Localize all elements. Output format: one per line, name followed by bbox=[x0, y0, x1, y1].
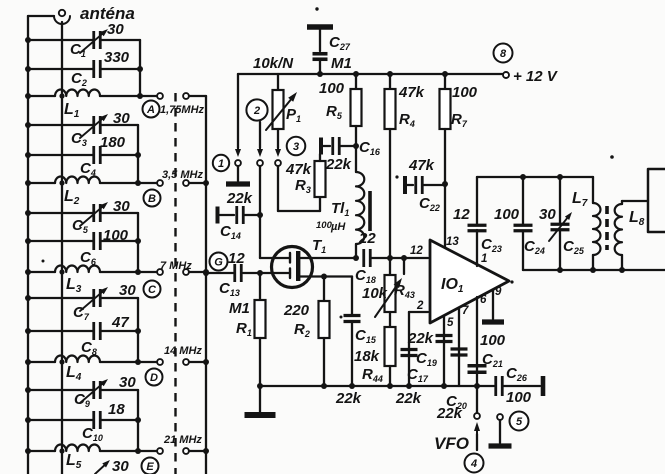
svg-text:13: 13 bbox=[446, 236, 459, 248]
band bus rail bbox=[205, 96, 207, 474]
trimmer capacitor C1 bbox=[92, 31, 95, 49]
switch contact pair band C bbox=[157, 269, 163, 275]
inductor L3 bbox=[55, 266, 100, 272]
switch contact column 1 from rail bbox=[237, 74, 239, 148]
svg-text:22k: 22k bbox=[335, 390, 362, 407]
ground symbol bbox=[259, 386, 261, 412]
capacitor C23 12 bbox=[476, 177, 478, 224]
svg-text:100: 100 bbox=[480, 332, 506, 349]
trimmer capacitor C5 bbox=[92, 204, 95, 222]
antenna rail bbox=[61, 22, 63, 474]
node B bbox=[144, 190, 161, 207]
svg-text:A: A bbox=[146, 104, 155, 116]
capacitor C8 bbox=[92, 322, 95, 340]
wire contact2 to gate1 bbox=[259, 166, 261, 258]
node G bbox=[210, 253, 228, 271]
ground under contact 1 bbox=[237, 166, 239, 181]
capacitor C18 22 bbox=[362, 249, 365, 267]
svg-text:100: 100 bbox=[452, 84, 478, 101]
svg-text:µH: µH bbox=[330, 221, 346, 233]
tank bottom rail bbox=[523, 269, 665, 271]
svg-text:47k: 47k bbox=[408, 157, 435, 174]
wire row C1 bbox=[28, 39, 93, 41]
switch contact pair band B bbox=[157, 180, 163, 186]
svg-text:10k: 10k bbox=[362, 285, 388, 302]
node E bbox=[142, 458, 159, 474]
capacitor C27 M1 bbox=[313, 52, 328, 56]
junction R43 wiper node bbox=[401, 255, 407, 261]
capacitor C10 bbox=[92, 411, 95, 429]
junction dots left rail bbox=[25, 295, 31, 301]
right connector section 5 bbox=[137, 390, 139, 451]
svg-text:22k: 22k bbox=[325, 156, 352, 173]
svg-text:30: 30 bbox=[113, 198, 130, 215]
svg-text:100: 100 bbox=[103, 227, 129, 244]
node 2 bbox=[246, 99, 267, 120]
svg-text:M1: M1 bbox=[331, 55, 352, 72]
switch contact pair band D bbox=[157, 359, 163, 365]
junction dots left rail bbox=[25, 210, 31, 216]
svg-text:2: 2 bbox=[253, 105, 260, 117]
svg-text:12: 12 bbox=[453, 206, 470, 223]
transistor T1 dual-gate FET bbox=[272, 247, 313, 288]
junction gate bbox=[257, 270, 263, 276]
wire row L4 bbox=[28, 361, 55, 363]
svg-text:E: E bbox=[146, 461, 154, 473]
node 3 bbox=[287, 137, 306, 156]
svg-text:30: 30 bbox=[113, 110, 130, 127]
right connector section 4 bbox=[137, 298, 139, 362]
svg-text:47k: 47k bbox=[285, 161, 312, 178]
pin 7 wire bbox=[458, 308, 460, 386]
svg-text:100: 100 bbox=[506, 389, 532, 406]
output box bbox=[648, 169, 665, 232]
svg-text:7: 7 bbox=[462, 305, 469, 317]
left rail bbox=[27, 16, 29, 474]
speck bbox=[315, 7, 318, 10]
svg-text:VFO: VFO bbox=[434, 434, 469, 453]
capacitor C20 bbox=[451, 347, 468, 350]
node C bbox=[144, 281, 161, 298]
svg-text:12: 12 bbox=[410, 245, 423, 257]
junction dots left rail bbox=[25, 37, 31, 43]
inductor L1 bbox=[55, 90, 100, 96]
ground above C27 bbox=[307, 24, 333, 30]
node A bbox=[143, 101, 160, 118]
wire row C7 bbox=[28, 297, 93, 299]
trimmer fragment bottom bbox=[95, 466, 104, 474]
drain wire bbox=[300, 257, 356, 259]
inductor L4 bbox=[55, 356, 100, 362]
resistor R44 18k bbox=[389, 312, 391, 327]
svg-text:8: 8 bbox=[500, 48, 507, 60]
inductor L5 bbox=[55, 445, 100, 451]
resistor R1 M1 bbox=[259, 273, 261, 300]
pin 6 wire bbox=[476, 297, 478, 386]
resistor R4 47k bbox=[389, 74, 391, 89]
svg-text:22k: 22k bbox=[436, 405, 463, 422]
svg-text:330: 330 bbox=[104, 49, 130, 66]
wire antenna to left rail bbox=[28, 15, 54, 17]
trimmer capacitor C3 bbox=[92, 116, 95, 134]
wire row L3 bbox=[28, 271, 55, 273]
junction dots left rail bbox=[25, 387, 31, 393]
wire row C5 bbox=[28, 212, 93, 214]
wire contact3 to R3 bbox=[277, 166, 279, 211]
svg-text:30: 30 bbox=[119, 282, 136, 299]
capacitor C4 bbox=[92, 146, 95, 164]
pin 5 wire bbox=[443, 316, 445, 386]
wire row C3 bbox=[28, 124, 93, 126]
+12V supply rail bbox=[238, 73, 503, 75]
svg-text:100: 100 bbox=[494, 206, 520, 223]
inductor Tl1 100uH bbox=[356, 172, 364, 244]
capacitor C16 bbox=[319, 138, 323, 155]
inductor L2 bbox=[55, 177, 100, 183]
wire row C9 bbox=[28, 389, 93, 391]
capacitor C17 bbox=[401, 348, 418, 351]
svg-text:18: 18 bbox=[108, 401, 125, 418]
svg-text:6: 6 bbox=[480, 294, 487, 306]
svg-text:1: 1 bbox=[218, 158, 224, 170]
wire row C8 bbox=[28, 330, 93, 332]
right connector section 1 bbox=[139, 40, 141, 96]
svg-text:3: 3 bbox=[293, 141, 299, 153]
pin 2 wire bbox=[409, 311, 428, 313]
svg-text:220: 220 bbox=[283, 302, 310, 319]
contact 5 ground bbox=[497, 414, 503, 420]
wire row L1 bbox=[28, 95, 55, 97]
switch contact pair band A bbox=[157, 93, 163, 99]
svg-text:5: 5 bbox=[516, 416, 523, 428]
svg-text:D: D bbox=[150, 372, 158, 384]
node 4 bbox=[465, 454, 484, 473]
capacitor C15 bbox=[351, 277, 353, 315]
svg-text:30: 30 bbox=[107, 21, 124, 38]
resistor R7 100 bbox=[444, 74, 446, 89]
svg-text:3,5 MHz: 3,5 MHz bbox=[162, 169, 203, 181]
switch contact column 2 bbox=[259, 122, 261, 148]
wire row C4 bbox=[28, 154, 93, 156]
transformer core bbox=[605, 206, 609, 250]
node 5 bbox=[510, 412, 529, 431]
right connector section 2 bbox=[137, 125, 139, 183]
op-amp IO1 bbox=[430, 240, 509, 323]
source wire bbox=[300, 275, 324, 277]
switch contact column 3 from P1 bbox=[277, 129, 279, 148]
svg-text:5: 5 bbox=[447, 317, 454, 329]
svg-text:10k/N: 10k/N bbox=[253, 55, 294, 72]
svg-text:22k: 22k bbox=[407, 330, 434, 347]
resistor R3 47k bbox=[319, 197, 321, 211]
svg-text:G: G bbox=[214, 256, 223, 268]
svg-text:1,75MHz: 1,75MHz bbox=[160, 104, 205, 116]
svg-text:30: 30 bbox=[112, 458, 129, 474]
svg-text:22k: 22k bbox=[226, 190, 253, 207]
svg-text:100: 100 bbox=[319, 80, 345, 97]
resistor R2 220 bbox=[323, 277, 325, 302]
switch contact pair band E bbox=[157, 448, 163, 454]
junction dots left rail bbox=[25, 122, 31, 128]
svg-text:M1: M1 bbox=[229, 300, 250, 317]
switch wafer dashed line bbox=[174, 93, 176, 474]
svg-text:B: B bbox=[148, 193, 156, 205]
svg-text:12: 12 bbox=[228, 250, 245, 267]
capacitor C24 100 bbox=[522, 177, 524, 224]
svg-text:+ 12 V: + 12 V bbox=[513, 68, 559, 85]
trimmer capacitor C9 bbox=[92, 381, 95, 399]
capacitor C13 12 bbox=[203, 270, 209, 276]
potentiometer P1 bbox=[277, 74, 279, 90]
inductor L7 bbox=[592, 177, 594, 203]
resistor R5 100 bbox=[355, 74, 357, 89]
svg-text:21 MHz: 21 MHz bbox=[163, 434, 202, 446]
svg-text:47k: 47k bbox=[398, 84, 425, 101]
wire row C6 bbox=[28, 240, 93, 242]
svg-text:47: 47 bbox=[111, 314, 129, 331]
inductor L8 bbox=[615, 204, 622, 255]
pin 1 wire bbox=[476, 230, 478, 266]
tank top rail bbox=[477, 176, 593, 178]
capacitor C2 bbox=[92, 60, 95, 78]
svg-text:30: 30 bbox=[539, 206, 556, 223]
node D bbox=[146, 369, 163, 386]
capacitor C6 bbox=[92, 232, 95, 250]
svg-text:14 MHz: 14 MHz bbox=[164, 345, 202, 357]
capacitor C21 100 bbox=[468, 364, 487, 367]
capacitor C14 bbox=[216, 207, 220, 224]
capacitor C26 100 bbox=[494, 376, 497, 396]
svg-text:18k: 18k bbox=[354, 348, 380, 365]
svg-text:C: C bbox=[148, 284, 157, 296]
wire row C10 bbox=[28, 419, 93, 421]
svg-text:1: 1 bbox=[481, 253, 487, 265]
terminal 8 +12V bbox=[503, 72, 509, 78]
svg-text:2: 2 bbox=[416, 300, 424, 312]
bottom rail bbox=[260, 385, 494, 387]
node 1 bbox=[213, 155, 229, 171]
wire row L5 bbox=[28, 450, 55, 452]
svg-text:9: 9 bbox=[495, 286, 502, 298]
svg-text:22k: 22k bbox=[395, 390, 422, 407]
potentiometer R43 10k bbox=[389, 258, 391, 275]
capacitor C19 22k bbox=[436, 334, 453, 337]
wire row L2 bbox=[28, 182, 55, 184]
right connector section 3 bbox=[137, 213, 139, 272]
VFO input contact bbox=[476, 386, 478, 412]
svg-text:180: 180 bbox=[100, 134, 126, 151]
capacitor C22 47k bbox=[403, 176, 407, 194]
svg-text:22: 22 bbox=[358, 230, 376, 247]
trimmer capacitor C7 bbox=[92, 289, 95, 307]
svg-text:30: 30 bbox=[119, 374, 136, 391]
pin 9 ground bbox=[492, 290, 494, 319]
wire row C2 bbox=[28, 68, 93, 70]
trimmer capacitor C25 30 bbox=[559, 177, 561, 223]
svg-text:4: 4 bbox=[470, 458, 477, 470]
antenna terminal bbox=[59, 10, 65, 16]
